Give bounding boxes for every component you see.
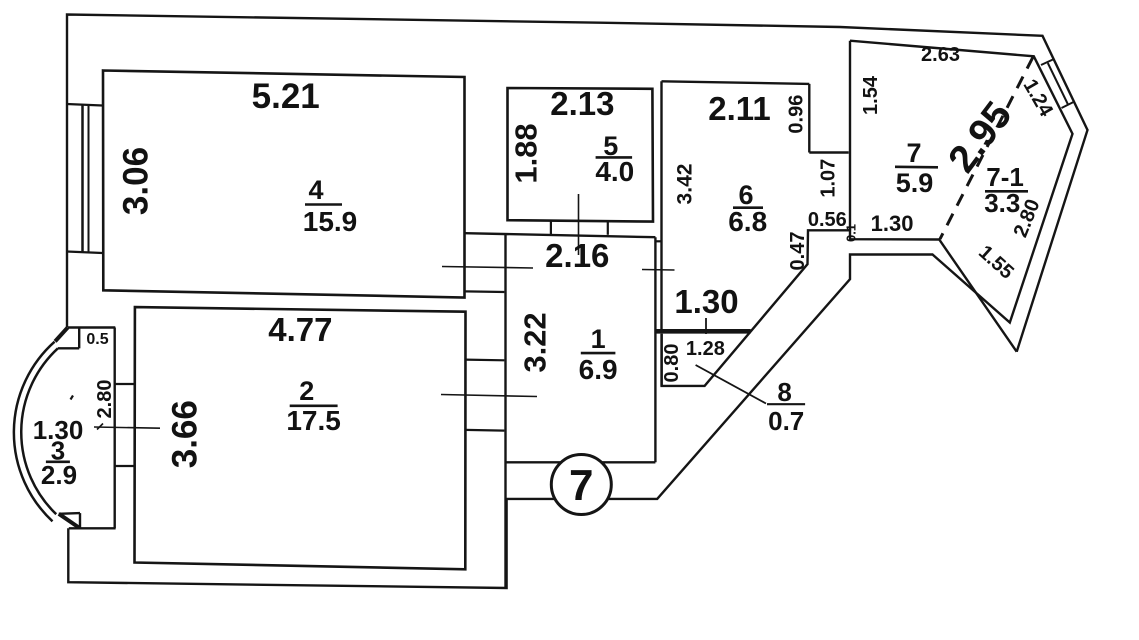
balcony bottom edge bbox=[69, 527, 116, 529]
svg-text:2: 2 bbox=[299, 376, 314, 406]
svg-text:1.07: 1.07 bbox=[817, 159, 839, 198]
circle 7 bbox=[551, 455, 611, 515]
svg-text:2.80: 2.80 bbox=[94, 380, 116, 419]
svg-text:2.13: 2.13 bbox=[550, 85, 614, 122]
svg-text:7: 7 bbox=[906, 138, 921, 168]
dim line room1 top right bbox=[642, 269, 675, 272]
outer wall step zigzag near room 7 bbox=[662, 230, 1017, 386]
svg-text:15.9: 15.9 bbox=[303, 206, 358, 237]
room 6 left wall bbox=[660, 81, 662, 329]
svg-text:2.11: 2.11 bbox=[708, 90, 770, 127]
window glazing bbox=[81, 105, 84, 252]
dim line balcony 1.30 bbox=[94, 427, 160, 428]
svg-text:0.96: 0.96 bbox=[785, 95, 807, 134]
room 4 bbox=[103, 71, 465, 298]
svg-text:1.54: 1.54 bbox=[860, 75, 882, 115]
svg-text:8: 8 bbox=[777, 377, 791, 407]
dim line room1 top left bbox=[442, 267, 533, 269]
svg-text:5.9: 5.9 bbox=[896, 168, 934, 198]
wall room7 left bbox=[849, 41, 851, 231]
room 1 bottom edge bbox=[506, 461, 656, 463]
svg-text:1: 1 bbox=[591, 324, 606, 354]
svg-text:2.63: 2.63 bbox=[921, 44, 960, 66]
svg-text:3.3: 3.3 bbox=[984, 188, 1020, 218]
room 1 top edge bbox=[465, 233, 655, 237]
svg-text:3.22: 3.22 bbox=[517, 312, 552, 372]
svg-text:4.77: 4.77 bbox=[268, 311, 332, 348]
fraction bars bbox=[305, 203, 342, 206]
box 0.80 left edge bbox=[660, 334, 662, 386]
room 1 right wall bbox=[654, 237, 656, 462]
room 5 bbox=[508, 88, 654, 222]
dim line 2.16 vertical bbox=[578, 194, 580, 255]
room 6 top edge bbox=[662, 81, 810, 84]
svg-text:0.56: 0.56 bbox=[808, 209, 847, 231]
speck mark bbox=[71, 396, 74, 400]
room 1 left wall bbox=[504, 234, 506, 588]
room 6 right wall upper bbox=[808, 84, 810, 153]
leader room 8 bbox=[696, 365, 766, 404]
balcony inner arc bbox=[21, 348, 58, 514]
svg-text:2.9: 2.9 bbox=[41, 460, 77, 490]
rungs wall room4-room1 bbox=[465, 290, 504, 293]
inner boundary right and bottom bbox=[68, 41, 1072, 588]
window ticks on 1.24 edge bbox=[1041, 59, 1054, 65]
dim line room1 mid bbox=[441, 395, 537, 397]
balcony top edge bbox=[68, 326, 116, 328]
svg-text:5.21: 5.21 bbox=[252, 77, 320, 116]
svg-text:3.66: 3.66 bbox=[166, 400, 205, 468]
svg-text:0.7: 0.7 bbox=[768, 406, 804, 436]
dashed wall 2.95 bbox=[940, 57, 1033, 239]
window left wall outer lines bbox=[67, 104, 103, 106]
door gap ticks room5 bbox=[550, 221, 552, 234]
tick balcony dim bbox=[97, 424, 103, 430]
svg-text:7: 7 bbox=[569, 461, 593, 510]
room 2 bbox=[135, 307, 466, 569]
svg-text:1.88: 1.88 bbox=[509, 123, 544, 183]
svg-text:4.0: 4.0 bbox=[595, 156, 634, 187]
svg-text:1.30: 1.30 bbox=[871, 211, 914, 236]
svg-text:0.80: 0.80 bbox=[661, 344, 683, 383]
svg-text:1.30: 1.30 bbox=[674, 283, 738, 320]
rung room1-room6 bbox=[655, 240, 661, 242]
svg-text:4: 4 bbox=[308, 175, 323, 205]
room 4 labels bbox=[33, 44, 1058, 510]
svg-text:3.06: 3.06 bbox=[116, 147, 155, 215]
svg-text:3.42: 3.42 bbox=[674, 164, 697, 205]
balcony door rungs bbox=[115, 383, 135, 385]
svg-text:17.5: 17.5 bbox=[286, 405, 341, 436]
balcony bottom jamb bbox=[59, 514, 79, 528]
outer wall top-left-right bbox=[67, 15, 1088, 352]
svg-text:1.28: 1.28 bbox=[686, 338, 725, 360]
balcony outer arc bbox=[14, 342, 55, 522]
svg-text:6.8: 6.8 bbox=[728, 206, 767, 237]
room 6 jog wall bbox=[809, 151, 848, 153]
balcony top jamb bbox=[55, 328, 68, 342]
svg-text:6.9: 6.9 bbox=[579, 354, 618, 385]
svg-text:0.47: 0.47 bbox=[787, 232, 809, 271]
thick wall 1.30 bbox=[657, 329, 751, 334]
svg-text:0.5: 0.5 bbox=[86, 331, 108, 348]
dim tick 1.28 bbox=[705, 318, 707, 334]
balcony right wall bbox=[113, 328, 115, 529]
svg-text:2.16: 2.16 bbox=[545, 237, 609, 274]
svg-text:0.1: 0.1 bbox=[844, 224, 859, 242]
